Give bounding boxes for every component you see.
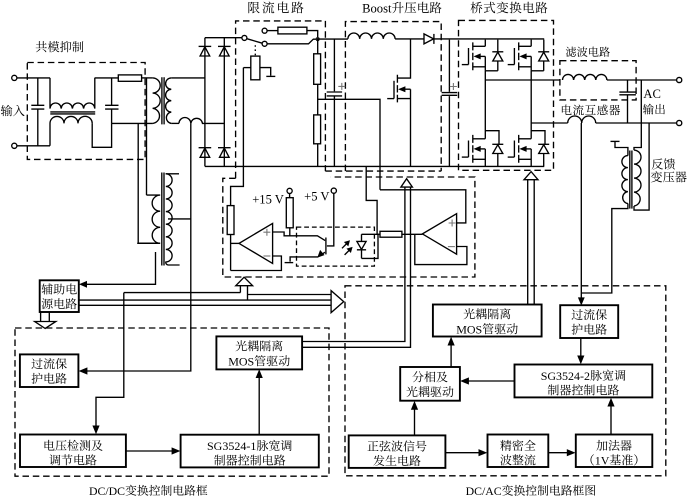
wire U2 - feedback: [415, 234, 467, 264]
input terminal top: [12, 75, 17, 80]
output terminal bottom: [677, 120, 682, 125]
mosfet Q5 (bridge BR): [513, 141, 515, 158]
wire line A to 电压检测: [96, 293, 124, 431]
wire bridge right midpoint: [531, 71, 568, 123]
transformer T2 core: [162, 173, 164, 266]
wire T2 secondary top stub: [166, 173, 179, 175]
winding T1 extra (2 bumps): [179, 118, 224, 124]
wire 正弦波 to 分相及: [414, 405, 416, 436]
arrowhead into 光耦隔离R: [448, 337, 455, 346]
wire boost top rail: [395, 38, 544, 40]
box 光耦隔离MOS管驱动 R: [433, 305, 542, 337]
box SG3524-1脉宽调制器控制电路: [181, 435, 319, 468]
wire 正弦波 to 精密全波: [445, 452, 483, 454]
bus shaft right (up arrow): [247, 286, 249, 300]
wire throw upper to resistor: [267, 30, 278, 32]
svg-text:MOS: MOS: [456, 322, 482, 336]
label 共模抑制: [36, 41, 47, 52]
wire bridge left midpoint: [485, 71, 560, 80]
mosfet Q2 gate lead: [462, 64, 469, 66]
diode D2: [218, 45, 231, 47]
label 分相及光耦驱动: [412, 371, 423, 382]
mosfet Q4 (bridge BL): [468, 141, 470, 158]
box 辅助电源电路: [40, 280, 79, 312]
wire aux drop A (x146.5): [146, 78, 148, 195]
label 限流电路: [248, 2, 259, 14]
drive bus 光耦L to boost bottom line: [302, 187, 410, 347]
label 桥式变换电路: [471, 2, 483, 14]
svg-text:+5 V: +5 V: [304, 189, 329, 203]
dashed box middle control: [223, 177, 475, 277]
wire relay right lead: [260, 68, 271, 76]
switch blade: [247, 39, 262, 44]
wire Q6 emitter to ground: [290, 257, 318, 262]
label + (C4): [450, 83, 457, 90]
inductor L2 (boost): [348, 33, 395, 39]
wire R5 left lead: [378, 233, 380, 235]
choke core bars: [50, 112, 95, 114]
wire R3 to op-amp rail: [230, 235, 232, 271]
switch throw contact lower: [262, 41, 267, 46]
svg-text:+15 V: +15 V: [252, 193, 284, 207]
label - (U2): [448, 246, 455, 248]
svg-text:DC/DC: DC/DC: [89, 484, 125, 498]
junction dot: [316, 37, 320, 41]
wire +15V to R4: [289, 194, 291, 198]
wire aux drop B (x138.2): [137, 123, 139, 243]
dashed box optocoupler: [297, 227, 375, 266]
diode D5 (boost): [424, 34, 434, 44]
wire CT tap down: [580, 123, 582, 302]
wire resistor to node: [307, 31, 318, 39]
svg-text:MOS: MOS: [228, 354, 254, 368]
wire T1 secondary top lead: [171, 77, 205, 79]
label 输出: [643, 104, 654, 115]
bus wire upper-right: [248, 294, 332, 296]
dashed box 共模抑制: [27, 63, 145, 160]
arrowhead into 分相及 bottom: [411, 401, 418, 410]
transformer T2 secondary: [166, 174, 180, 265]
inductor L3 (filter): [563, 74, 607, 80]
resistor R5 (LED drive): [380, 231, 402, 237]
wire 分相及 to 光耦隔离R: [450, 340, 452, 367]
mosfet Q5 gate lead: [508, 156, 515, 158]
arrowhead into 光耦隔离L: [256, 369, 263, 378]
label - (U1): [263, 255, 270, 257]
mosfet Q3 gate lead: [508, 64, 515, 66]
arrowhead into 分相及: [460, 377, 469, 384]
wire T3 left bottom to protection: [581, 204, 628, 294]
wire Q5 drain/diode tee: [531, 123, 545, 144]
wire SG3524-2 to 分相及: [464, 380, 515, 382]
dashed box 桥式变换电路: [459, 20, 554, 170]
bus wire to line A: [124, 292, 241, 294]
mosfet Q3 (bridge TR): [513, 48, 515, 65]
choke L1 top winding: [50, 78, 95, 109]
label + (U1): [263, 229, 270, 236]
transformer T1 core: [162, 77, 164, 124]
label 输入: [1, 105, 13, 116]
bus wire aux top: [79, 299, 331, 301]
wire T1 secondary bottom lead: [171, 122, 179, 124]
capacitor C4 electrolytic: [442, 40, 458, 167]
label 光耦隔离MOS管驱动 R: [464, 308, 475, 319]
wire LED loop: [362, 234, 379, 258]
transistor Q6 bar: [325, 238, 327, 255]
label 辅助电源电路: [42, 284, 53, 295]
wire throw lower to node: [267, 39, 318, 44]
op-amp U2: [422, 214, 456, 255]
box 过流保护电路 R: [560, 305, 618, 338]
box 电压检测及调节电路: [20, 435, 126, 468]
wire 电压检测 to SG3524-1: [126, 450, 177, 452]
wire relay to op-amp resistor: [231, 68, 244, 206]
wire R5 to U2 output: [402, 233, 423, 235]
capacitor C2: [105, 78, 118, 124]
transformer T1 primary: [153, 78, 161, 123]
diode D7 top lead: [543, 40, 545, 52]
output terminal top: [677, 77, 682, 82]
dashed box DC/AC control: [345, 286, 666, 476]
wire relay left lead: [243, 67, 250, 69]
hollow arrow right into DC/AC box: [331, 291, 344, 313]
box 光耦隔离MOS管驱动 L: [216, 336, 302, 369]
wire input bottom: [17, 145, 50, 147]
terminal +5V: [331, 188, 336, 193]
label 精密全波整流: [500, 440, 511, 451]
dashed box 滤波电路: [560, 61, 636, 100]
LED D8 (optocoupler): [357, 234, 366, 258]
capacitor C3 electrolytic: [327, 39, 342, 166]
wire AC top rail: [607, 79, 677, 81]
arrowhead into SG3524-2 bottom: [607, 398, 614, 407]
wire U1 + input to optocoupler: [273, 232, 326, 241]
current transformer CT: [568, 116, 596, 123]
arrowhead into SG3524-2 top: [577, 356, 584, 365]
ground bar (feedback): [611, 140, 620, 142]
svg-text:SG3524-2: SG3524-2: [541, 369, 590, 383]
diode D6 top lead: [497, 40, 499, 52]
mosfet Q1 gate bar: [393, 81, 395, 99]
drive bus 光耦L to boost top line: [302, 187, 405, 341]
arrowhead into 电压检测: [92, 426, 99, 435]
wire U1 output to rail: [231, 242, 239, 244]
mosfet Q2 (bridge TL): [468, 48, 470, 65]
label 正弦波信号发生电路: [368, 441, 379, 451]
transformer T3 right winding: [634, 150, 641, 206]
wire top node to fuse: [95, 77, 119, 79]
wire line B to 过流保护L: [82, 123, 191, 371]
arrowhead into 过流保护L: [79, 367, 88, 374]
aux down-arrow shafts: [41, 312, 50, 322]
box SG3524-2脉宽调制器控制电路: [515, 365, 653, 398]
wire T3 right bottom to AC return: [634, 123, 649, 210]
choke L1 bottom winding: [50, 116, 92, 145]
transformer T3 left winding: [622, 156, 628, 204]
dashed box DC/DC control: [15, 328, 329, 476]
wire divider chain: [317, 39, 319, 166]
relay link dotted: [254, 45, 256, 55]
wire U2 + feedback: [380, 190, 466, 223]
diode D1: [199, 45, 212, 47]
wire rectifier column 1: [204, 38, 206, 167]
label 加法器1V基准: [596, 440, 607, 451]
transformer T2 primary: [137, 195, 160, 243]
wire ground bus: [205, 165, 544, 167]
mosfet Q4 gate lead: [462, 156, 469, 158]
mosfet Q1 channel bar: [396, 75, 398, 103]
label 过流保护电路 L: [31, 358, 42, 369]
mosfet Q1 body arrow: [404, 88, 411, 90]
relay coil K: [251, 56, 260, 80]
dashed box 限流电路: [236, 21, 326, 178]
wire divider tap to comparator: [318, 99, 380, 190]
label + (C3): [338, 83, 345, 90]
wire 精密全波 to 加法器: [548, 452, 572, 454]
resistor R1 (bypass): [278, 27, 307, 34]
svg-text:Boost: Boost: [362, 1, 392, 15]
wire T2 secondary center tap: [168, 218, 191, 220]
diode D4: [218, 147, 231, 149]
mosfet Q1 gate lead: [387, 98, 394, 100]
resistor R2a (divider top): [314, 54, 321, 85]
ground bar (relay): [266, 75, 275, 77]
arrowhead into 精密全波: [479, 449, 488, 456]
svg-text:DC/AC: DC/AC: [466, 484, 502, 498]
wire rectifier top output: [205, 37, 242, 39]
input terminal bottom: [12, 143, 17, 148]
hollow arrow up at boost gate: [401, 179, 413, 187]
dashed box Boost: [325, 22, 441, 172]
wire U1 feedback rail: [231, 256, 282, 271]
wire AC bottom rail: [596, 122, 677, 124]
mosfet Q1 source: [397, 89, 410, 166]
label 光耦隔离MOS管驱动 L: [236, 340, 247, 351]
wire input top: [17, 77, 50, 79]
light arrow 1: [342, 243, 347, 248]
wire 加法器 to SG3524-2: [610, 402, 612, 435]
transistor Q6 emitter: [320, 252, 325, 256]
wire fuse to T1 primary top: [142, 77, 153, 79]
box 正弦波信号发生电路: [349, 435, 446, 468]
arrowhead into 加法器: [567, 449, 576, 456]
svg-text:SG3524-1: SG3524-1: [207, 439, 256, 453]
box 加法器1V基准: [576, 435, 653, 468]
box 分相及光耦驱动: [400, 367, 460, 401]
wire 过流保护R to SG3524-2: [580, 338, 582, 361]
diode D3: [199, 147, 212, 149]
wire node right to boost: [318, 38, 348, 40]
switch pole contact: [242, 35, 247, 40]
label 反馈: [652, 158, 663, 169]
drive bus 光耦R to bridge lines: [528, 180, 535, 305]
switch throw contact upper: [262, 28, 267, 33]
fuse FU: [118, 75, 141, 81]
label 过流保护电路 R: [572, 309, 583, 320]
wire rectifier column 2: [223, 38, 225, 167]
arrowhead into SG3524-1: [172, 447, 181, 454]
label 滤波电路: [566, 47, 576, 57]
wire +5V down to transistor: [327, 193, 334, 246]
wire ground to T3 left top: [615, 141, 628, 155]
arrowhead into 过流保护 right: [578, 297, 585, 305]
bus wire aux bottom: [79, 304, 331, 306]
svg-text:AC: AC: [643, 87, 661, 101]
wire mid node to T1 primary bottom: [112, 122, 153, 124]
mosfet Q1 drain: [397, 39, 410, 78]
ground bar (optocoupler): [285, 262, 294, 264]
box 精密全波整流: [488, 435, 549, 468]
op-amp U1: [239, 223, 273, 263]
hollow arrow up into control box: [236, 277, 253, 286]
box 过流保护电路 L: [20, 354, 79, 387]
resistor R2b (divider bottom): [314, 115, 321, 144]
resistor R3 (sense): [227, 206, 234, 235]
wire T3 right top to AC rail: [634, 80, 641, 150]
capacitor C5 (filter): [619, 80, 636, 123]
wire R4 to node: [289, 228, 291, 236]
transformer T1 secondary: [166, 78, 172, 124]
terminal +15V: [287, 188, 292, 193]
arrowhead into aux box: [79, 281, 87, 288]
label 电流互感器: [562, 105, 572, 115]
resistor R4 (+15V): [286, 198, 293, 228]
wire Q3 drain up: [530, 40, 532, 47]
wire Q2 drain up: [484, 40, 486, 47]
wire choke-to-cap U link: [92, 123, 111, 147]
wire T2 to aux supply: [82, 252, 156, 284]
label 变压器: [651, 171, 662, 182]
wire bus drop to R5: [366, 166, 377, 234]
bus shaft left (up arrow): [239, 286, 241, 293]
label + (U2): [449, 220, 456, 227]
wire SG3524-1 to 光耦隔离L: [258, 373, 260, 435]
svg-text:1V: 1V: [595, 453, 610, 467]
label 电压检测及调节电路: [45, 440, 55, 451]
wire Q4 drain/diode tee: [485, 80, 499, 144]
transformer T3 core: [630, 151, 632, 209]
capacitor C1: [31, 78, 44, 146]
hollow arrow up at bridge: [524, 172, 538, 180]
light arrow 2: [345, 250, 350, 255]
hollow arrow down from aux box: [35, 322, 56, 329]
